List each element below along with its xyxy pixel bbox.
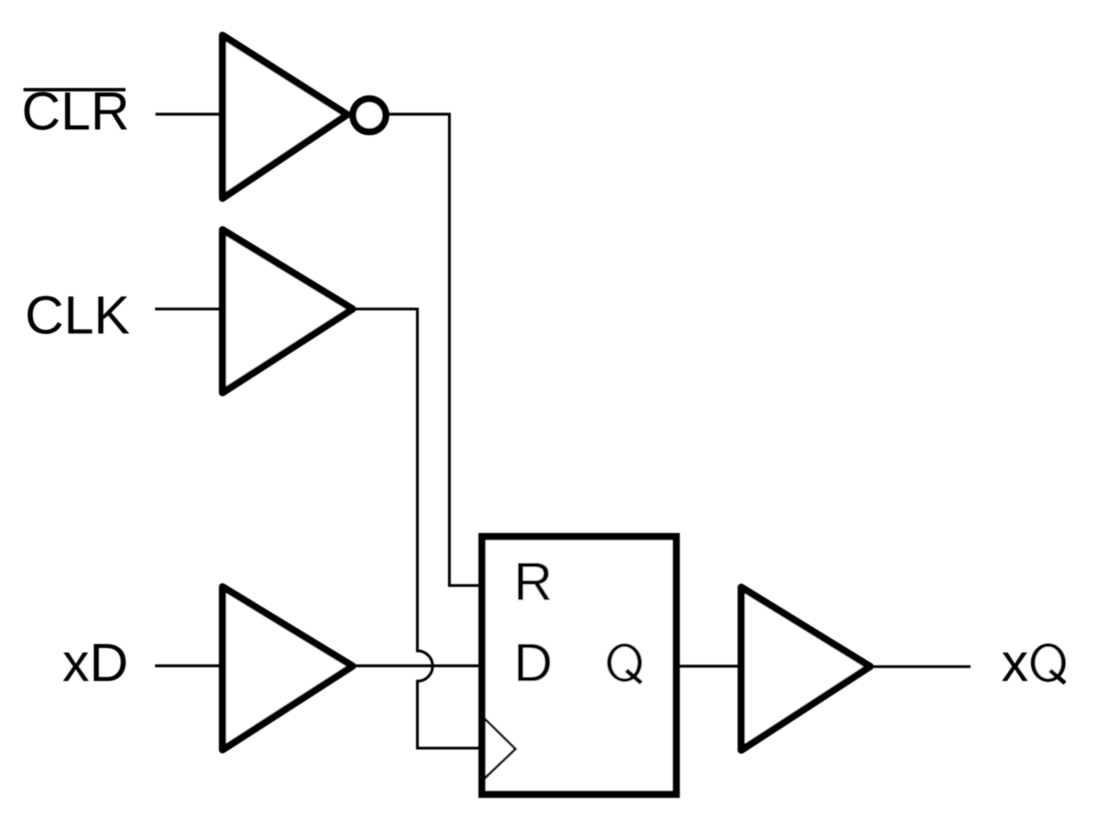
- label Q pin: [607, 643, 642, 683]
- svg-text:CLK: CLK: [25, 285, 130, 345]
- wire output buffer to xQ: [868, 665, 971, 668]
- inverter U1 triangle (CLR): [223, 35, 348, 198]
- svg-text:D: D: [514, 633, 553, 693]
- buffer U3 triangle (xD): [223, 587, 353, 750]
- svg-text:xD: xD: [62, 633, 128, 693]
- wire Q output to output buffer: [676, 665, 741, 668]
- wire CLRb net: inverter output to R input: [389, 114, 479, 585]
- wire xD input: [155, 664, 226, 667]
- buffer U2 triangle (CLK): [223, 230, 353, 393]
- flip-flop U4 clock edge caret: [485, 719, 516, 779]
- buffer U5 triangle (xQ): [741, 587, 870, 750]
- svg-text:R: R: [514, 552, 553, 612]
- flip-flop U4 body: [482, 537, 676, 795]
- svg-text:CLR: CLR: [22, 81, 130, 141]
- svg-text:x: x: [1001, 633, 1028, 693]
- wire xD buffer output to D input: [350, 664, 479, 667]
- wire CLK net: buffer output to clock pin, hop over xD wire: [350, 309, 479, 748]
- label CLR overline: [24, 88, 126, 91]
- wire CLK input: [155, 308, 226, 311]
- inverter U1 bubble: [353, 99, 386, 132]
- wire CLR input: [156, 113, 225, 116]
